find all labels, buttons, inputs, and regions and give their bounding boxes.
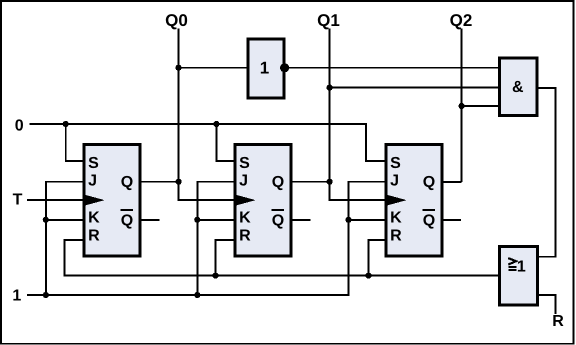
- svg-text:T: T: [13, 192, 23, 209]
- svg-text:&: &: [512, 79, 524, 96]
- svg-text:J: J: [239, 172, 248, 189]
- junction FF2 Q / Q1: [327, 179, 333, 185]
- wire FF2 R elbow: [216, 240, 235, 276]
- svg-text:S: S: [88, 155, 99, 172]
- svg-text:K: K: [390, 210, 402, 227]
- junction FF3 K: [345, 217, 351, 223]
- wire net Q1 vertical: [329, 29, 331, 182]
- wire Q2 to AND input 3: [462, 105, 499, 107]
- inverter output bubble: [280, 63, 289, 72]
- wire inverter input from Q0: [179, 67, 248, 69]
- svg-text:Q2: Q2: [450, 11, 473, 30]
- wire 0-line to FF3 S elbow: [30, 124, 386, 161]
- wire net Q0 vertical: [178, 29, 180, 182]
- wire FF1 R elbow and R-line to OR input: [65, 240, 500, 276]
- wire net Q2 vertical: [461, 29, 463, 183]
- wire FF1 J/K vertical from 1-line: [46, 182, 84, 295]
- svg-text:R: R: [390, 228, 402, 245]
- wire FF1 K input: [46, 219, 84, 221]
- flip-flop FF1: [84, 144, 140, 256]
- svg-text:Q: Q: [272, 212, 284, 229]
- wire Q1 to AND input 2: [330, 87, 499, 89]
- svg-text:S: S: [390, 155, 401, 172]
- wire AND output down to OR right top: [538, 88, 556, 257]
- junction FF2 J/K on 1-line: [194, 292, 200, 298]
- svg-text:Q: Q: [272, 174, 284, 191]
- wire FF2 J/K vertical from 1-line: [197, 182, 234, 295]
- svg-text:S: S: [239, 155, 250, 172]
- wire 1-line to FF3 J: [27, 182, 386, 295]
- svg-text:Q: Q: [423, 212, 435, 229]
- junction FF1 K: [43, 217, 49, 223]
- AND gate U2 (&): [500, 58, 538, 116]
- wire FF1 Qbar stub: [141, 219, 160, 221]
- svg-text:1: 1: [12, 288, 21, 305]
- wire FF2 Q output: [292, 181, 330, 183]
- wire FF2 K input: [197, 219, 234, 221]
- wire inverter output to AND input 1: [285, 67, 499, 69]
- junction FF2 R on R-line: [212, 273, 218, 279]
- svg-text:R: R: [239, 228, 251, 245]
- svg-text:Q: Q: [423, 174, 435, 191]
- junction FF1 S / 0-line: [63, 121, 69, 127]
- wire FF3 Qbar stub: [443, 219, 462, 221]
- svg-text:K: K: [88, 210, 100, 227]
- svg-text:Q: Q: [121, 212, 133, 229]
- junction Q0 / inverter input: [175, 65, 181, 71]
- svg-text:1: 1: [517, 259, 526, 276]
- svg-text:J: J: [390, 172, 399, 189]
- svg-text:Q: Q: [121, 174, 133, 191]
- junction FF3 R on R-line: [365, 273, 371, 279]
- wire OR output to R: [538, 295, 556, 314]
- junction Q1 / AND input 2: [327, 85, 333, 91]
- wire FF2 S elbow: [216, 124, 234, 161]
- wire FF1 S elbow: [66, 124, 84, 161]
- svg-text:K: K: [239, 210, 251, 227]
- wire FF2 Qbar stub: [292, 219, 311, 221]
- wire FF2 Q to FF3 clock elbow: [330, 182, 386, 200]
- wire FF1 Q output: [141, 181, 179, 183]
- junction FF1 Q / Q0: [176, 179, 182, 185]
- junction FF2 K: [194, 217, 200, 223]
- flip-flop FF3: [386, 144, 442, 256]
- wire FF3 K input: [349, 219, 386, 221]
- junction FF1 J/K on 1-line: [43, 292, 49, 298]
- svg-text:R: R: [88, 228, 100, 245]
- flip-flop FF2: [235, 144, 291, 256]
- junction FF2 S / 0-line: [213, 121, 219, 127]
- OR gate U3 (>=1): [500, 247, 538, 306]
- svg-text:1: 1: [260, 59, 269, 78]
- wire T line to FF1 clock: [27, 199, 84, 201]
- svg-text:Q1: Q1: [317, 11, 340, 30]
- junction Q2 / AND input 3: [459, 103, 465, 109]
- svg-text:0: 0: [15, 117, 24, 134]
- svg-text:J: J: [88, 172, 97, 189]
- svg-text:Q0: Q0: [165, 11, 188, 30]
- wire FF3 R elbow: [369, 240, 386, 276]
- svg-text:R: R: [552, 313, 564, 330]
- wire FF3 Q output to Q2: [443, 181, 462, 183]
- wire FF1 Q to FF2 clock elbow: [179, 182, 235, 200]
- inverter gate U1 (1): [248, 39, 284, 98]
